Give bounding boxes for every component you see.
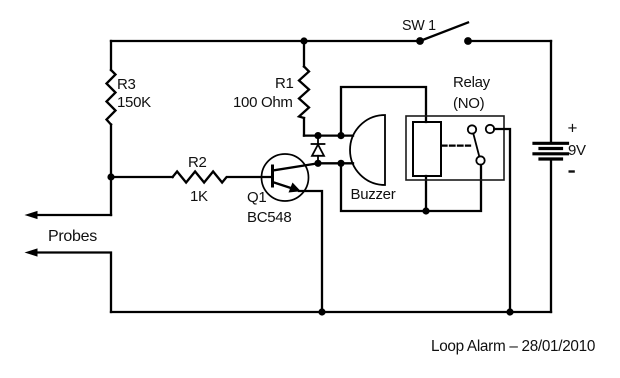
wire emitter to bottom rail [299,191,322,312]
relay contact circles [468,125,494,165]
wire top rail left [111,40,420,42]
wire right rail upper [550,41,552,142]
wire upper buzzer line [304,134,353,136]
wire probe 1 [25,211,112,219]
wire left rail upper [110,41,112,70]
wire coil bottom [425,176,427,211]
wire relay NO contact to bottom rail [494,129,510,312]
transistor Q1 [262,154,319,201]
resistor R2 [173,172,273,183]
node R1 top [300,37,307,44]
resistor R3 [107,70,116,125]
wire left rail lower [110,125,112,216]
diode D1 [312,136,325,164]
node emitter/bottom rail [318,308,325,315]
svg-text:150K: 150K [117,94,151,111]
node diode bottom / collector [314,160,321,167]
relay dashed link [442,144,470,146]
switch SW1 [416,23,472,45]
svg-text:Probes: Probes [48,228,97,245]
battery B1 9V [534,143,568,159]
relay coil [413,122,441,176]
node coil bottom junction [422,207,429,214]
node buzzer minus [337,160,344,167]
wire top rail right [468,40,551,42]
svg-text:Loop Alarm – 28/01/2010: Loop Alarm – 28/01/2010 [431,338,595,355]
relay K1 box [406,116,504,180]
wire lower buzzer line [318,162,353,164]
svg-text:SW 1: SW 1 [402,18,436,34]
buzzer BZ1 [350,115,385,185]
node diode top [314,132,321,139]
svg-text:(NO): (NO) [453,95,485,112]
svg-text:Buzzer: Buzzer [351,186,396,203]
label battery minus [569,170,575,172]
svg-text:BC548: BC548 [247,209,291,226]
resistor R1 [299,41,309,136]
svg-text:+: + [568,119,578,138]
node relay wire / bottom rail [506,308,513,315]
svg-text:100 Ohm: 100 Ohm [233,94,293,111]
svg-text:Relay: Relay [453,74,491,91]
svg-text:Q1: Q1 [247,189,266,206]
wire right rail lower [550,161,552,312]
wire buzzer top to relay coil [341,87,426,136]
svg-text:R1: R1 [275,75,294,92]
svg-text:R2: R2 [188,154,207,171]
node junction R3/R2/probe [107,173,114,180]
wire bottom rail [111,311,551,313]
node buzzer plus [337,132,344,139]
svg-text:1K: 1K [190,188,208,205]
svg-text:R3: R3 [117,76,136,93]
svg-text:9V: 9V [568,142,586,159]
wire base feed [111,176,173,178]
wire buzzer bottom to coil bottom rail [341,163,481,211]
wire probe 2 [25,248,112,312]
